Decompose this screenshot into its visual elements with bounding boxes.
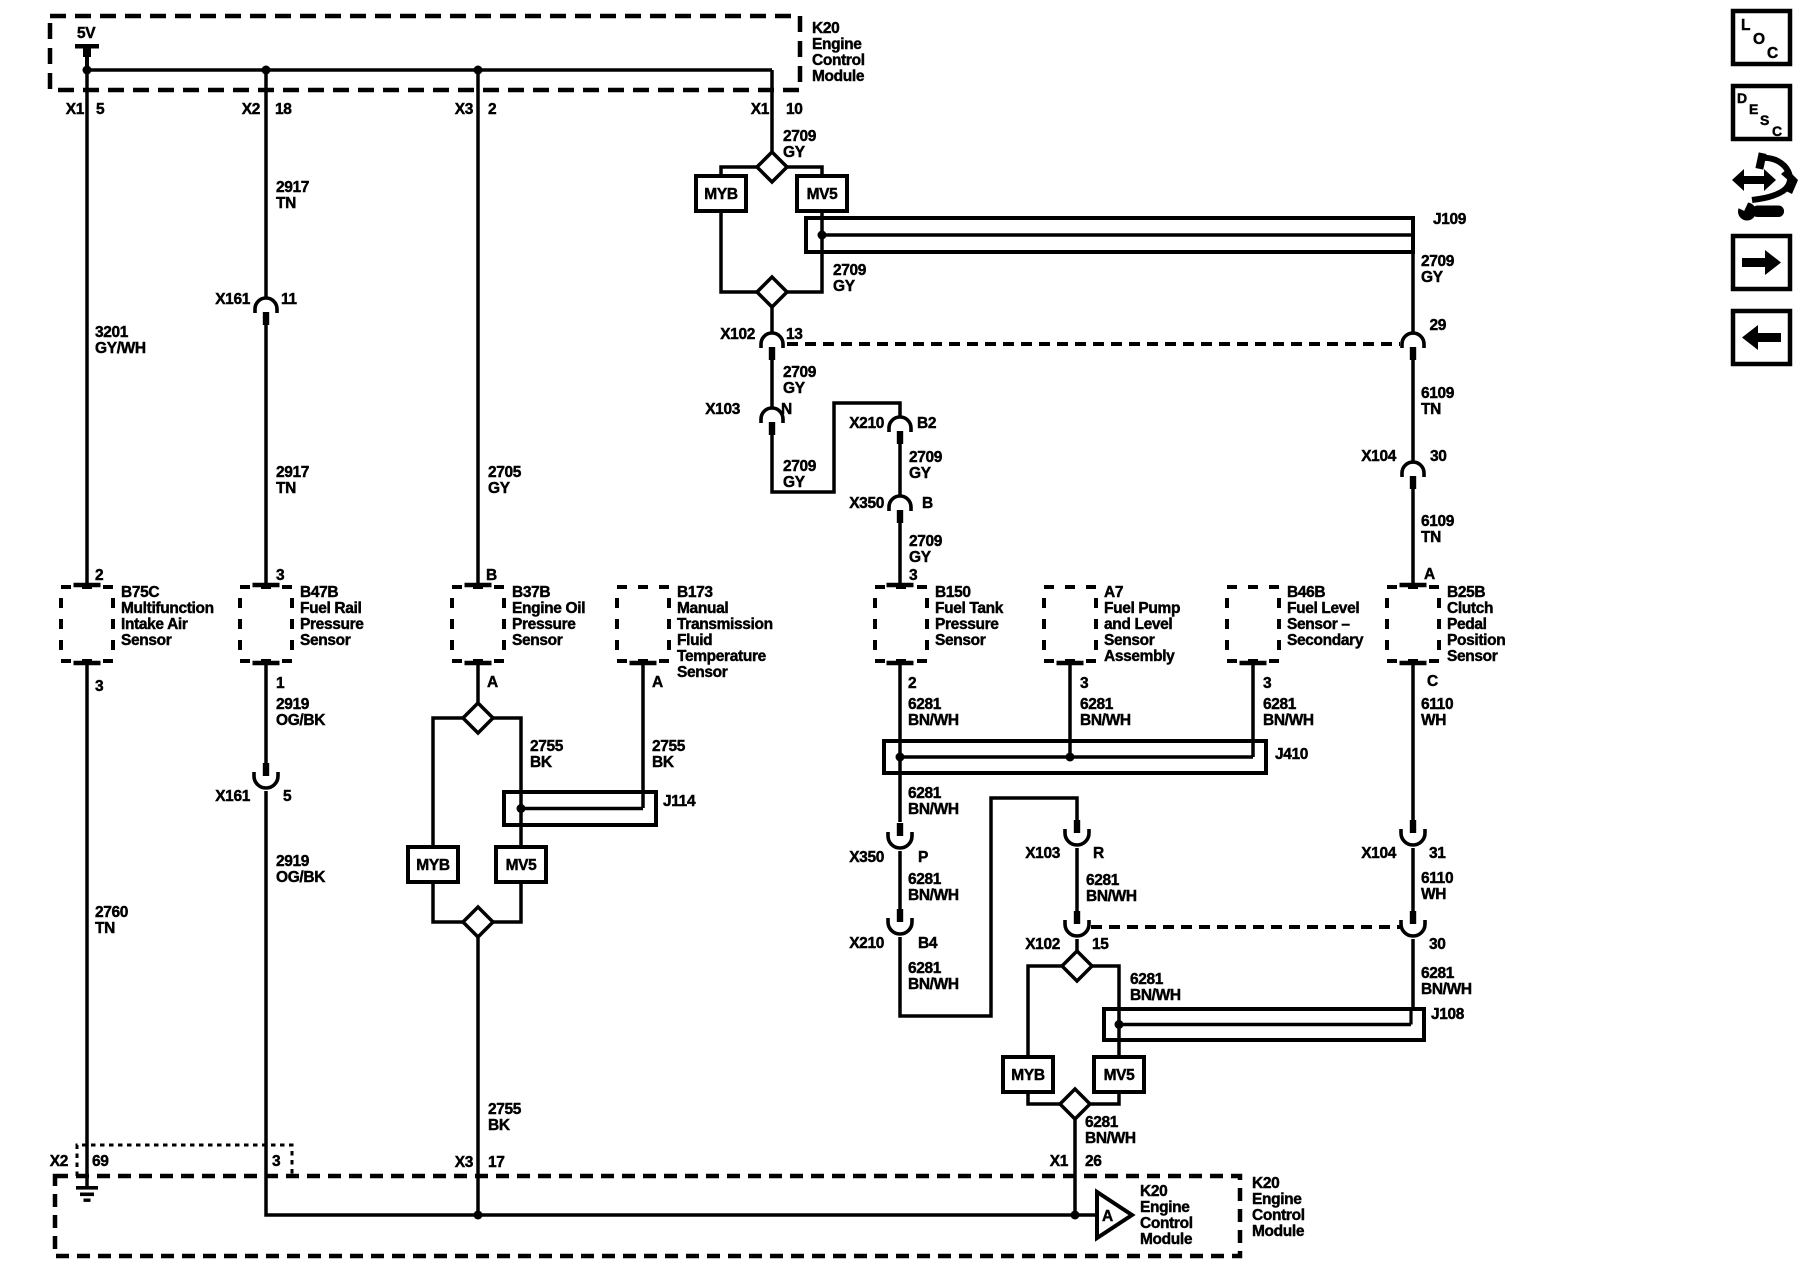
svg-text:2755: 2755 [488,1101,522,1118]
svg-text:GY: GY [783,144,806,161]
svg-text:Engine: Engine [1140,1199,1190,1216]
svg-text:B75C: B75C [121,584,159,601]
svg-text:Pressure: Pressure [300,616,364,633]
svg-text:Position: Position [1447,632,1505,649]
svg-text:X350: X350 [849,495,884,512]
svg-text:BN/WH: BN/WH [908,976,959,993]
svg-text:15: 15 [1092,936,1109,953]
svg-text:X102: X102 [1025,936,1060,953]
svg-text:3: 3 [909,567,918,584]
svg-text:Sensor: Sensor [300,632,351,649]
svg-text:2709: 2709 [909,449,943,466]
svg-text:17: 17 [488,1154,505,1171]
svg-text:2919: 2919 [276,696,310,713]
svg-text:GY: GY [833,278,856,295]
svg-text:2709: 2709 [833,262,867,279]
svg-text:3: 3 [1263,675,1272,692]
svg-text:2760: 2760 [95,904,128,921]
svg-text:MYB: MYB [416,857,450,874]
svg-text:6281: 6281 [908,696,942,713]
svg-text:X3: X3 [455,1154,474,1171]
svg-text:2705: 2705 [488,464,522,481]
svg-text:BK: BK [652,754,675,771]
svg-text:Engine Oil: Engine Oil [512,600,585,617]
svg-text:X161: X161 [215,291,251,308]
svg-text:Module: Module [1140,1231,1193,1248]
svg-text:B150: B150 [935,584,971,601]
svg-text:2709: 2709 [1421,253,1455,270]
svg-text:MYB: MYB [1011,1067,1045,1084]
svg-text:Module: Module [1252,1223,1305,1240]
svg-text:Fuel Rail: Fuel Rail [300,600,361,617]
svg-text:2917: 2917 [276,179,309,196]
svg-text:J410: J410 [1275,746,1308,763]
svg-text:6281: 6281 [908,785,942,802]
svg-text:26: 26 [1085,1153,1102,1170]
svg-text:2919: 2919 [276,853,310,870]
svg-text:Intake Air: Intake Air [121,616,188,633]
svg-text:31: 31 [1429,845,1446,862]
svg-text:K20: K20 [812,20,839,37]
svg-text:BN/WH: BN/WH [908,887,959,904]
svg-text:N: N [781,401,792,418]
svg-text:Fuel Level: Fuel Level [1287,600,1359,617]
svg-text:TN: TN [276,195,296,212]
svg-text:MV5: MV5 [506,857,538,874]
svg-text:R: R [1093,845,1104,862]
svg-text:6110: 6110 [1421,870,1453,887]
svg-text:X104: X104 [1361,448,1397,465]
svg-text:J114: J114 [663,793,696,810]
svg-text:GY: GY [909,549,932,566]
svg-text:Pressure: Pressure [935,616,999,633]
svg-text:3: 3 [272,1153,281,1170]
svg-text:3201: 3201 [95,324,129,341]
svg-text:TN: TN [276,480,296,497]
svg-text:2: 2 [95,567,103,584]
svg-text:6281: 6281 [908,871,942,888]
svg-text:X103: X103 [705,401,741,418]
svg-text:X2: X2 [242,101,260,118]
svg-text:X210: X210 [849,415,884,432]
svg-text:2709: 2709 [909,533,943,550]
svg-text:B47B: B47B [300,584,338,601]
svg-text:TN: TN [1421,401,1441,418]
svg-text:Sensor –: Sensor – [1287,616,1350,633]
svg-text:Sensor: Sensor [677,664,728,681]
svg-text:OG/BK: OG/BK [276,869,326,886]
svg-text:BN/WH: BN/WH [908,712,959,729]
svg-text:Sensor: Sensor [121,632,172,649]
svg-text:X103: X103 [1025,845,1061,862]
svg-text:TN: TN [95,920,115,937]
svg-text:X350: X350 [849,849,884,866]
svg-text:6281: 6281 [1080,696,1114,713]
svg-text:BK: BK [530,754,553,771]
svg-text:Pedal: Pedal [1447,616,1487,633]
svg-text:3: 3 [276,567,285,584]
svg-text:BN/WH: BN/WH [1130,987,1181,1004]
svg-text:C: C [1772,123,1782,139]
svg-text:B4: B4 [918,935,938,952]
svg-text:X3: X3 [455,101,474,118]
svg-text:30: 30 [1430,448,1447,465]
svg-text:BN/WH: BN/WH [1086,888,1137,905]
svg-text:K20: K20 [1252,1175,1279,1192]
svg-text:18: 18 [275,101,292,118]
svg-text:B46B: B46B [1287,584,1325,601]
svg-text:X210: X210 [849,935,884,952]
svg-text:A7: A7 [1104,584,1123,601]
svg-text:3: 3 [95,678,104,695]
svg-text:MV5: MV5 [1104,1067,1136,1084]
svg-text:S: S [1760,112,1769,128]
svg-text:6109: 6109 [1421,385,1455,402]
svg-text:WH: WH [1421,712,1446,729]
svg-text:6109: 6109 [1421,513,1455,530]
svg-text:6110: 6110 [1421,696,1453,713]
svg-text:Module: Module [812,68,865,85]
svg-text:Manual: Manual [677,600,728,617]
svg-text:B: B [486,567,497,584]
svg-text:Fuel Tank: Fuel Tank [935,600,1004,617]
svg-text:6281: 6281 [1421,965,1455,982]
svg-text:5: 5 [96,101,105,118]
svg-text:X1: X1 [66,101,85,118]
svg-text:6281: 6281 [1086,872,1120,889]
svg-text:10: 10 [786,101,803,118]
svg-text:B37B: B37B [512,584,550,601]
svg-text:2: 2 [908,675,916,692]
svg-text:6281: 6281 [1263,696,1297,713]
svg-text:BN/WH: BN/WH [908,801,959,818]
svg-text:Pressure: Pressure [512,616,576,633]
svg-text:BN/WH: BN/WH [1085,1130,1136,1147]
svg-text:BN/WH: BN/WH [1263,712,1314,729]
svg-text:C: C [1767,45,1778,62]
svg-text:B2: B2 [917,415,936,432]
svg-text:GY: GY [1421,269,1444,286]
svg-text:A: A [652,674,663,691]
svg-text:X1: X1 [751,101,770,118]
svg-text:29: 29 [1429,317,1446,334]
svg-text:BN/WH: BN/WH [1080,712,1131,729]
svg-text:X1: X1 [1050,1153,1069,1170]
svg-text:L: L [1741,17,1750,34]
svg-text:BK: BK [488,1117,511,1134]
svg-text:11: 11 [281,291,297,308]
svg-text:Sensor: Sensor [1104,632,1155,649]
svg-text:Engine: Engine [1252,1191,1302,1208]
svg-text:Temperature: Temperature [677,648,767,665]
svg-text:GY/WH: GY/WH [95,340,146,357]
svg-text:Transmission: Transmission [677,616,773,633]
svg-text:Sensor: Sensor [512,632,563,649]
svg-text:K20: K20 [1140,1183,1167,1200]
svg-text:OG/BK: OG/BK [276,712,326,729]
svg-text:2755: 2755 [530,738,564,755]
svg-text:Multifunction: Multifunction [121,600,214,617]
svg-text:X102: X102 [720,326,755,343]
svg-text:A: A [1102,1208,1113,1225]
svg-text:O: O [1753,31,1765,48]
svg-text:J109: J109 [1433,211,1467,228]
svg-text:A: A [1424,566,1435,583]
svg-text:2709: 2709 [783,364,817,381]
svg-text:6281: 6281 [1130,971,1164,988]
svg-text:13: 13 [786,326,803,343]
svg-text:B: B [922,495,933,512]
svg-text:and Level: and Level [1104,616,1172,633]
svg-text:30: 30 [1429,936,1446,953]
svg-text:P: P [918,849,928,866]
svg-text:69: 69 [92,1153,109,1170]
svg-text:6281: 6281 [908,960,942,977]
svg-text:2917: 2917 [276,464,309,481]
svg-text:GY: GY [909,465,932,482]
svg-text:X2: X2 [50,1153,68,1170]
svg-text:D: D [1737,90,1747,106]
svg-text:1: 1 [276,675,285,692]
svg-text:BN/WH: BN/WH [1421,981,1472,998]
svg-text:X161: X161 [215,788,251,805]
svg-text:Assembly: Assembly [1104,648,1175,665]
svg-text:3: 3 [1080,675,1089,692]
svg-text:GY: GY [488,480,511,497]
svg-text:C: C [1427,673,1438,690]
svg-text:Control: Control [1252,1207,1305,1224]
svg-text:MV5: MV5 [807,186,839,203]
svg-text:TN: TN [1421,529,1441,546]
svg-text:2: 2 [488,101,496,118]
svg-text:2709: 2709 [783,458,817,475]
svg-text:GY: GY [783,474,806,491]
svg-text:5V: 5V [77,25,96,42]
svg-text:J108: J108 [1431,1006,1465,1023]
svg-text:B173: B173 [677,584,713,601]
svg-text:Control: Control [1140,1215,1193,1232]
svg-text:Engine: Engine [812,36,862,53]
svg-text:E: E [1749,101,1758,117]
svg-text:Fluid: Fluid [677,632,712,649]
svg-text:X104: X104 [1361,845,1397,862]
svg-text:Control: Control [812,52,865,69]
svg-text:B25B: B25B [1447,584,1485,601]
svg-text:2755: 2755 [652,738,686,755]
svg-text:2709: 2709 [783,128,817,145]
svg-text:Sensor: Sensor [1447,648,1498,665]
svg-text:Clutch: Clutch [1447,600,1493,617]
svg-text:WH: WH [1421,886,1446,903]
svg-text:5: 5 [283,788,292,805]
svg-text:Sensor: Sensor [935,632,986,649]
svg-text:Secondary: Secondary [1287,632,1364,649]
svg-text:A: A [487,674,498,691]
svg-text:6281: 6281 [1085,1114,1119,1131]
svg-text:GY: GY [783,380,806,397]
svg-text:Fuel Pump: Fuel Pump [1104,600,1180,617]
svg-text:MYB: MYB [704,186,738,203]
